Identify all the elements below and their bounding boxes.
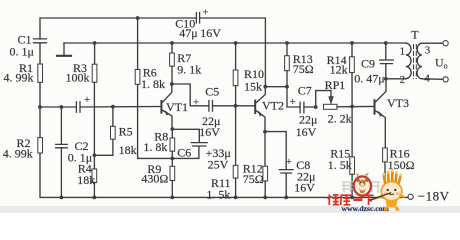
node rail2 R7: [170, 41, 174, 45]
node rail2 R14: [350, 41, 354, 45]
svg-text:+: +: [84, 94, 90, 106]
svg-text:−18V: −18V: [418, 189, 450, 204]
svg-text:4. 99k: 4. 99k: [4, 71, 34, 85]
node VT1 collector: [170, 82, 174, 86]
svg-text:VT1: VT1: [166, 100, 188, 114]
svg-text:430Ω: 430Ω: [141, 171, 168, 185]
svg-text:0. 47μ: 0. 47μ: [354, 72, 384, 86]
svg-text:16V: 16V: [294, 181, 315, 195]
svg-text:T: T: [411, 28, 419, 42]
svg-text:25V: 25V: [208, 157, 229, 171]
wire C8 link: [265, 132, 286, 170]
wire mid node row: [40, 106, 161, 109]
node R13 bottom: [285, 85, 289, 89]
node rail R12: [263, 196, 267, 200]
capacitor C8: [279, 170, 293, 198]
wire R3R4 to R5 jog: [94, 139, 113, 155]
svg-text:Uo: Uo: [435, 55, 448, 70]
resistor R16: [383, 148, 388, 197]
capacitor C2: [56, 107, 68, 197]
node VT2 emitter: [263, 130, 267, 134]
transformer core: [414, 45, 417, 79]
node rail R11: [234, 196, 238, 200]
capacitor C7: [300, 102, 304, 113]
node rail R16: [383, 196, 387, 200]
transistor VT1: [161, 84, 172, 129]
svg-text:C7: C7: [298, 83, 312, 97]
svg-text:RP1: RP1: [325, 78, 346, 92]
svg-text:12k: 12k: [330, 63, 348, 77]
svg-text:R5: R5: [119, 125, 133, 139]
resistor R6: [135, 18, 140, 158]
svg-text:4: 4: [424, 72, 430, 84]
svg-text:+: +: [290, 96, 296, 108]
mascot crown: [370, 169, 406, 211]
potentiometer RP1: [316, 91, 375, 110]
wire VT2 collector link: [265, 86, 287, 88]
watermark faint char 2: [370, 182, 380, 193]
svg-text:75Ω: 75Ω: [243, 172, 264, 186]
resistor R13: [285, 43, 290, 107]
node rail2 R10: [234, 41, 238, 45]
capacitor C6: [191, 143, 207, 146]
resistor R11: [233, 106, 238, 198]
capacitor C1: [34, 39, 47, 64]
wire VT1 collector to C5: [172, 84, 209, 106]
svg-text:C5: C5: [205, 85, 219, 99]
svg-text:16V: 16V: [200, 26, 221, 40]
node VT2 base: [234, 104, 238, 108]
watermark text red: [328, 195, 374, 206]
resistor R3: [92, 43, 97, 155]
wire top rail right segment: [200, 18, 266, 87]
transistor VT3: [375, 79, 387, 148]
svg-text:+: +: [286, 156, 292, 168]
svg-text:100k: 100k: [66, 71, 90, 85]
ground: [57, 43, 71, 56]
wire bottom rail: [40, 153, 408, 197]
node rail C2: [60, 196, 64, 200]
svg-text:1. 5k: 1. 5k: [328, 158, 352, 172]
transformer T primary: [406, 43, 411, 78]
svg-text:16V: 16V: [296, 125, 317, 139]
node VT2 collector: [263, 85, 267, 89]
svg-text:2: 2: [400, 74, 406, 86]
svg-text:+: +: [193, 96, 199, 108]
node rail2 R13: [285, 41, 289, 45]
svg-text:C9: C9: [361, 57, 375, 71]
svg-text:3: 3: [425, 45, 431, 57]
svg-text:C6: C6: [177, 145, 191, 159]
wire VT2 base: [236, 105, 255, 107]
scan edge bottom: [0, 206, 460, 213]
watermark faint char 1: [342, 182, 353, 192]
node rail R9: [170, 196, 174, 200]
node R8 R9: [170, 157, 174, 161]
svg-text:4. 99k: 4. 99k: [3, 147, 33, 161]
resistor R9: [170, 158, 175, 197]
capacitor C3 series: [76, 102, 80, 112]
node mid C2: [60, 105, 64, 109]
node rail C8: [284, 196, 288, 200]
terminal circle bottom: [443, 77, 448, 82]
node mid R5: [111, 105, 115, 109]
resistor R4: [92, 155, 97, 197]
wire C9 to primary: [386, 78, 406, 80]
wire rail2 supply: [64, 42, 406, 44]
wire secondary top lead: [422, 42, 443, 44]
wire C7 row: [287, 106, 316, 108]
capacitor C5: [209, 101, 236, 112]
resistor R8: [170, 129, 175, 158]
svg-text:18k: 18k: [119, 143, 137, 157]
resistor R14: [350, 43, 355, 107]
transformer T secondary: [417, 43, 422, 79]
svg-text:2. 2k: 2. 2k: [328, 111, 352, 125]
mascot monkey: [354, 173, 371, 196]
resistor R1: [38, 64, 43, 138]
wire top rail left segment: [40, 18, 196, 39]
svg-text:1: 1: [400, 46, 406, 58]
node mid R2: [38, 105, 42, 109]
node RP1 C7: [314, 105, 318, 109]
node R3 R4: [93, 153, 97, 157]
svg-text:0. 1μ: 0. 1μ: [10, 44, 34, 58]
svg-text:47μ: 47μ: [179, 26, 197, 40]
node rail2 R3: [93, 41, 97, 45]
svg-text:15k: 15k: [244, 80, 262, 94]
svg-text:1. 8k: 1. 8k: [141, 77, 165, 91]
svg-text:1. 5k: 1. 5k: [206, 188, 230, 202]
resistor R15: [350, 107, 355, 198]
node VT3 collector: [384, 77, 388, 81]
svg-text:9. 1k: 9. 1k: [177, 62, 201, 76]
node top rail R6: [136, 16, 140, 20]
wire emitter node row: [138, 146, 199, 158]
svg-text:www.dzsc.com: www.dzsc.com: [342, 204, 390, 213]
capacitor C10 plates: [196, 13, 199, 24]
resistor R10: [233, 43, 238, 106]
capacitor C9: [380, 43, 394, 79]
svg-text:VT3: VT3: [387, 96, 409, 110]
resistor R7: [170, 43, 175, 84]
svg-text:16V: 16V: [199, 125, 220, 139]
resistor R2: [38, 138, 43, 153]
node rail R15: [350, 196, 354, 200]
svg-text:1. 8k: 1. 8k: [143, 140, 167, 154]
terminal circle top: [443, 41, 448, 46]
transistor VT2: [255, 87, 265, 132]
resistor R12: [263, 132, 268, 198]
wire secondary bottom lead: [422, 78, 443, 81]
node rail2 C9: [384, 41, 388, 45]
node VT1 emitter: [170, 127, 174, 131]
wire C6 top link: [172, 129, 199, 142]
node RP1 out: [350, 105, 354, 109]
svg-text:+: +: [202, 6, 208, 18]
resistor R5: [111, 107, 116, 140]
svg-text:18k: 18k: [77, 173, 95, 187]
node rail R4: [93, 196, 97, 200]
terminal circle -18V: [408, 194, 413, 199]
svg-text:75Ω: 75Ω: [293, 62, 314, 76]
svg-text:VT2: VT2: [262, 99, 284, 113]
